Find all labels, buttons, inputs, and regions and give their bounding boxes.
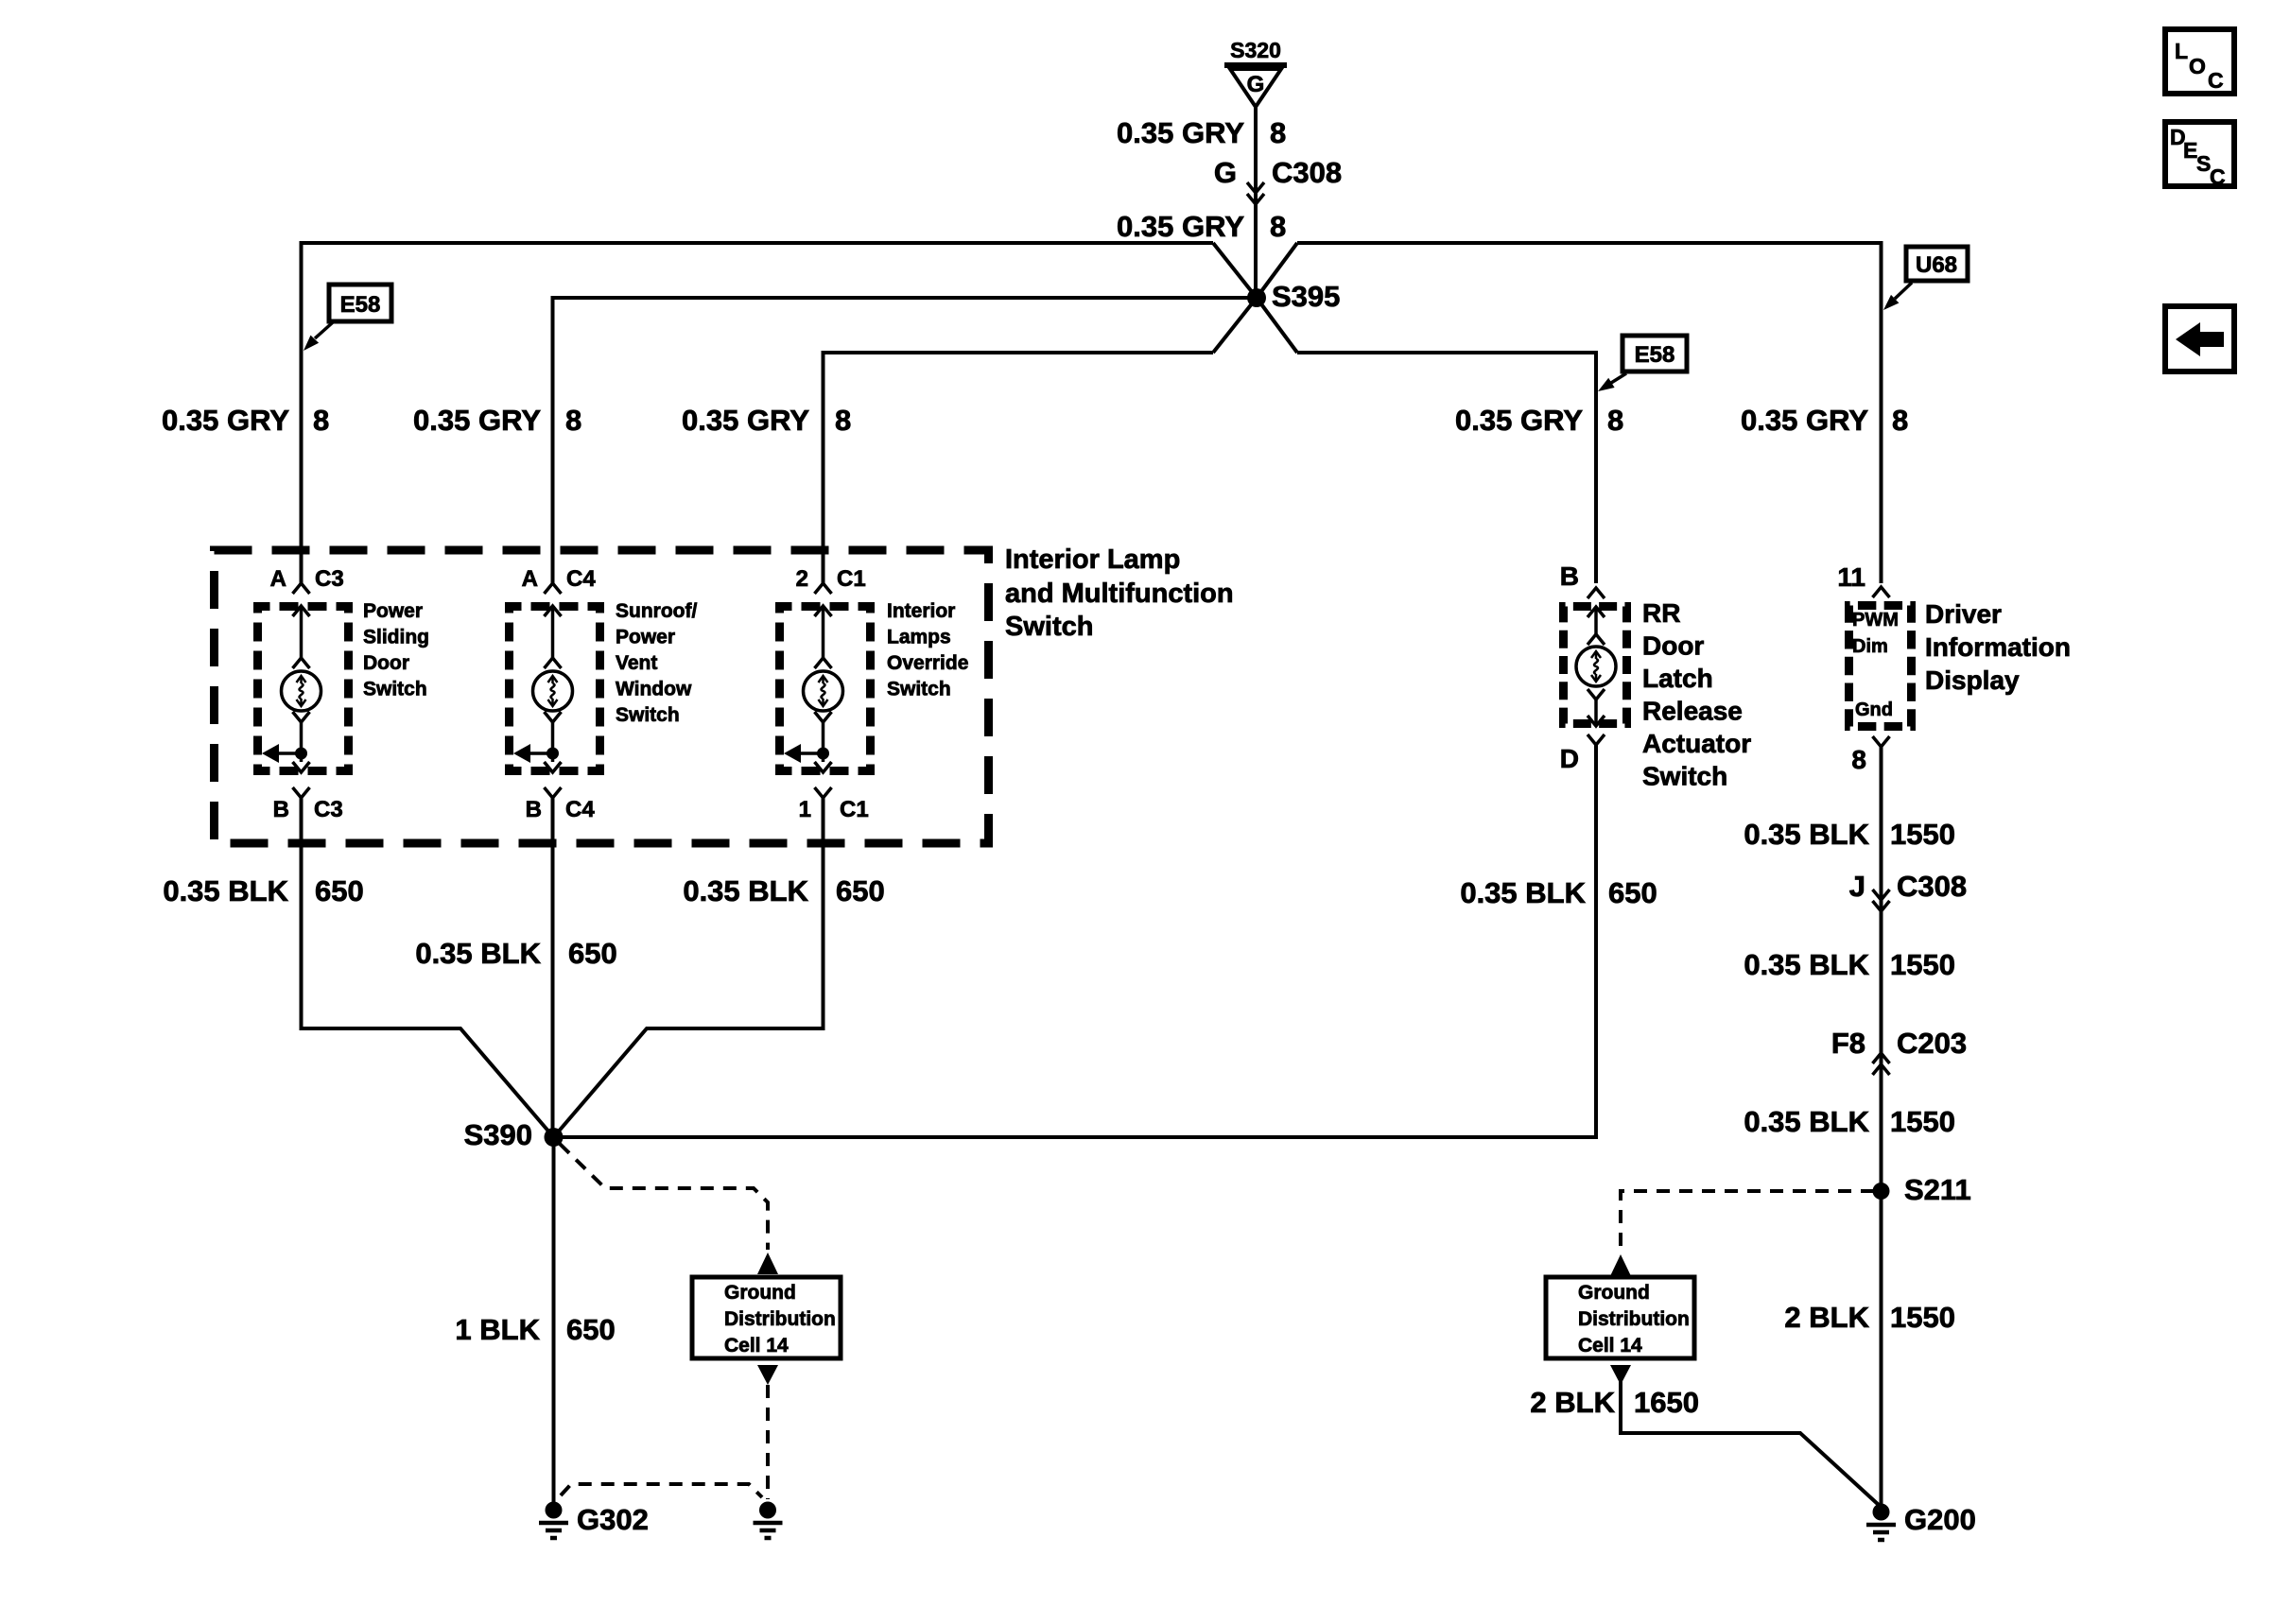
switch SW4: RR Door Latch Release Actuator Switch	[1560, 561, 1751, 791]
svg-text:0.35 BLK: 0.35 BLK	[1744, 1105, 1869, 1138]
svg-text:0.35 BLK: 0.35 BLK	[163, 874, 288, 907]
ground G200	[1866, 1504, 1896, 1541]
svg-text:Window: Window	[616, 679, 692, 700]
svg-text:PWM: PWM	[1852, 610, 1899, 631]
svg-text:650: 650	[568, 937, 617, 970]
pin 2 connector chevron (C1)	[815, 583, 832, 594]
junction S390	[545, 1128, 564, 1147]
value label 0.35 GRY 8 (wire to C3)	[162, 404, 329, 437]
switch SW3: Interior Lamps Override Switch	[780, 566, 969, 822]
svg-text:G302: G302	[577, 1503, 649, 1536]
value label 0.35 BLK 650 (from SW2)	[415, 937, 616, 970]
SW4 internal arrow down	[1588, 716, 1605, 726]
wire bus top-left to Power Sliding Door switch	[302, 243, 1214, 583]
svg-text:0.35 GRY: 0.35 GRY	[1117, 116, 1244, 149]
SW4 internal chevron above lamp	[1588, 634, 1605, 645]
svg-text:Dim: Dim	[1852, 636, 1888, 657]
svg-text:F8: F8	[1831, 1027, 1865, 1060]
dashed link ground distribution box to grounds	[766, 1385, 770, 1499]
connector F8 / C203 double chevron	[1831, 1027, 1967, 1075]
svg-text:1: 1	[799, 797, 811, 822]
switch SW2 dashed detail box	[510, 607, 600, 771]
svg-text:B: B	[1560, 561, 1579, 591]
svg-text:8: 8	[835, 404, 851, 437]
legend box LOC	[2165, 29, 2234, 94]
svg-text:C3: C3	[314, 797, 343, 822]
value label 0.35 GRY 8 (upper)	[1117, 116, 1286, 149]
wire diagonal S395 down-left	[1213, 298, 1257, 353]
connector C308 double chevron (pin G)	[1247, 182, 1264, 204]
value label 2 BLK 1550	[1784, 1301, 1955, 1334]
switch SW2: Sunroof/Power Vent Window Switch	[510, 566, 698, 822]
SW3 internal wire to wiper junction	[822, 722, 825, 762]
svg-text:Gnd: Gnd	[1855, 700, 1893, 720]
value label 0.35 GRY 8 (wire to C4)	[413, 404, 581, 437]
svg-text:Ground: Ground	[1578, 1282, 1650, 1304]
switch SW1: Power Sliding Door Switch	[258, 566, 430, 822]
svg-text:0.35 GRY: 0.35 GRY	[413, 404, 541, 437]
SW1 internal chevron below lamp	[293, 712, 310, 722]
wire SW1 pin B down to S390	[302, 798, 554, 1137]
pin A connector chevron (C3)	[293, 583, 310, 594]
svg-text:C203: C203	[1897, 1027, 1967, 1060]
svg-text:C3: C3	[315, 566, 344, 592]
SW4 internal arrow up	[1588, 607, 1605, 617]
svg-text:Information: Information	[1925, 632, 2071, 662]
connector callout box U68	[1883, 247, 1968, 310]
svg-text:C308: C308	[1897, 870, 1967, 903]
ground G302	[539, 1502, 568, 1539]
svg-text:C: C	[2208, 68, 2224, 93]
value label 2 BLK 1650	[1530, 1386, 1699, 1419]
svg-text:D: D	[1560, 744, 1579, 773]
component box: Interior Lamp and Multifunction Switch (dashed outline)	[215, 550, 989, 843]
svg-text:Interior Lamp: Interior Lamp	[1005, 544, 1180, 575]
svg-text:S395: S395	[1272, 280, 1340, 313]
svg-text:G200: G200	[1904, 1503, 1976, 1536]
svg-text:Actuator: Actuator	[1642, 729, 1751, 758]
pin 8 connector chevron	[1873, 736, 1890, 747]
SW3 wiper arrow left	[784, 744, 824, 763]
svg-text:8: 8	[565, 404, 581, 437]
svg-text:0.35 GRY: 0.35 GRY	[1117, 210, 1244, 243]
svg-text:Vent: Vent	[616, 652, 657, 674]
svg-text:C4: C4	[565, 797, 595, 822]
pin label G / connector C308	[1214, 156, 1342, 189]
value label 0.35 BLK 1550 (between C308 and C203)	[1744, 948, 1955, 981]
svg-text:Sliding: Sliding	[363, 627, 429, 648]
svg-text:Override: Override	[887, 652, 968, 674]
SW3 internal chevron above lamp	[815, 658, 832, 668]
svg-text:Release: Release	[1642, 697, 1743, 726]
ground distribution cell box (right)	[1546, 1277, 1694, 1358]
svg-text:8: 8	[313, 404, 329, 437]
pin 11 connector chevron	[1873, 587, 1890, 597]
svg-text:Driver: Driver	[1925, 599, 2002, 629]
svg-text:650: 650	[836, 874, 885, 907]
svg-text:1550: 1550	[1890, 818, 1955, 851]
wire diagonal S395 up-right	[1257, 243, 1297, 298]
dashed link S390 to ground distribution cell	[560, 1144, 768, 1250]
pin B connector chevron (C3)	[293, 787, 310, 798]
svg-text:0.35 GRY: 0.35 GRY	[1455, 404, 1583, 437]
svg-text:C4: C4	[566, 566, 596, 592]
svg-text:G: G	[1214, 156, 1237, 189]
svg-text:Ground: Ground	[724, 1282, 796, 1304]
connector callout box E58 (left)	[304, 285, 391, 351]
wire bus top-right to Driver Information Display	[1297, 243, 1882, 583]
DID dashed box	[1849, 606, 1912, 727]
svg-text:8: 8	[1892, 404, 1908, 437]
svg-text:650: 650	[1608, 876, 1657, 909]
svg-text:E58: E58	[340, 292, 381, 318]
svg-text:C308: C308	[1272, 156, 1342, 189]
label Interior Lamp and Multifunction Switch	[1005, 544, 1234, 642]
SW4 lamp symbol	[1576, 647, 1616, 686]
svg-text:0.35 BLK: 0.35 BLK	[415, 937, 541, 970]
SW2 internal arrow down	[545, 762, 562, 772]
svg-text:J: J	[1849, 870, 1865, 903]
ground distribution cell box (left)	[692, 1277, 841, 1358]
svg-text:Switch: Switch	[1005, 612, 1093, 642]
svg-text:C1: C1	[837, 566, 866, 592]
SW1 internal arrow up	[293, 606, 310, 616]
component U1: Driver Information Display	[1837, 562, 2071, 774]
dashed link to G302	[561, 1484, 762, 1497]
junction S211	[1873, 1183, 1890, 1200]
svg-text:11: 11	[1837, 562, 1865, 592]
svg-text:Door: Door	[363, 652, 409, 674]
dashed link S211 to ground distribution cell (right)	[1621, 1191, 1874, 1252]
wire SW2 pin B down to S390	[551, 798, 555, 1137]
svg-text:1650: 1650	[1634, 1386, 1699, 1419]
svg-text:Switch: Switch	[887, 679, 951, 700]
svg-text:S211: S211	[1904, 1173, 1971, 1206]
wire bus lower-right to RR Door Latch switch	[1297, 353, 1596, 583]
svg-text:Sunroof/: Sunroof/	[616, 600, 697, 622]
SW2 internal chevron above lamp	[545, 658, 562, 668]
svg-text:0.35 GRY: 0.35 GRY	[682, 404, 809, 437]
svg-text:650: 650	[566, 1313, 616, 1346]
svg-text:1 BLK: 1 BLK	[455, 1313, 540, 1346]
svg-text:1550: 1550	[1890, 948, 1955, 981]
wire S390 down to G302	[552, 1137, 556, 1503]
svg-text:2 BLK: 2 BLK	[1784, 1301, 1869, 1334]
legend box DESC	[2165, 122, 2234, 189]
svg-text:Latch: Latch	[1642, 664, 1713, 693]
svg-text:C: C	[2210, 164, 2226, 189]
wire S320 to S395	[1254, 107, 1258, 291]
svg-text:B: B	[273, 797, 289, 822]
svg-text:G: G	[1247, 72, 1265, 97]
SW2 wiper junction dot	[547, 748, 559, 760]
value label 1 BLK 650	[455, 1313, 615, 1346]
svg-text:Switch: Switch	[363, 679, 427, 700]
value label 0.35 BLK 1550 (above S211)	[1744, 1105, 1955, 1138]
pin A connector chevron (C4)	[545, 583, 562, 594]
SW1 wiper junction dot	[295, 748, 307, 760]
switch SW3 dashed detail box	[780, 607, 871, 771]
SW1 internal chevron above lamp	[293, 658, 310, 668]
svg-text:0.35 GRY: 0.35 GRY	[1741, 404, 1868, 437]
switch SW4 dashed detail box	[1564, 607, 1627, 724]
value label 0.35 GRY 8 (wire to DID)	[1741, 404, 1908, 437]
svg-text:8: 8	[1270, 210, 1286, 243]
arrowhead up into ground distribution box (right)	[1610, 1254, 1631, 1276]
svg-text:Distribution: Distribution	[1578, 1308, 1690, 1330]
value label 0.35 BLK 650 (from SW1)	[163, 874, 363, 907]
svg-text:8: 8	[1607, 404, 1623, 437]
arrowhead up into ground distribution box (left)	[757, 1253, 778, 1274]
svg-text:RR: RR	[1642, 598, 1680, 628]
pin D connector chevron	[1588, 734, 1605, 745]
arrowhead down out of ground distribution box (left)	[757, 1365, 778, 1385]
svg-text:8: 8	[1851, 745, 1866, 774]
svg-text:650: 650	[315, 874, 364, 907]
pin B connector chevron	[1588, 588, 1605, 598]
svg-text:1550: 1550	[1890, 1301, 1955, 1334]
connector callout box E58 (right)	[1598, 336, 1687, 391]
SW2 internal wire to wiper junction	[551, 722, 555, 762]
SW4 internal wire down	[1594, 700, 1598, 726]
svg-text:Power: Power	[616, 627, 675, 648]
pin B connector chevron (C4)	[545, 787, 562, 798]
svg-text:1550: 1550	[1890, 1105, 1955, 1138]
connector J / C308 double chevron	[1849, 870, 1967, 911]
pin 1 connector chevron (C1)	[815, 787, 832, 798]
svg-text:0.35 GRY: 0.35 GRY	[162, 404, 289, 437]
svg-text:A: A	[270, 566, 286, 592]
wire SW3 pin 1 down to S390	[554, 798, 824, 1137]
SW1 internal arrow down	[293, 762, 310, 772]
wire diagonal S395 down-right	[1257, 298, 1297, 353]
svg-text:0.35 BLK: 0.35 BLK	[1460, 876, 1586, 909]
svg-text:8: 8	[1270, 116, 1286, 149]
svg-text:S390: S390	[464, 1118, 532, 1151]
SW1 lamp symbol	[282, 671, 321, 711]
wire S390 right to RR door latch pin D	[554, 745, 1597, 1137]
svg-text:0.35 BLK: 0.35 BLK	[683, 874, 808, 907]
svg-text:Cell 14: Cell 14	[1578, 1335, 1642, 1356]
SW1 wiper arrow left	[262, 744, 302, 763]
wire DID pin 8 down to G200	[1880, 747, 1883, 1505]
svg-text:Display: Display	[1925, 665, 2020, 695]
value label 0.35 GRY 8 (wire to RR door latch)	[1455, 404, 1623, 437]
SW3 internal arrow down	[815, 762, 832, 772]
wire bus S395 left to Sunroof switch	[553, 298, 1249, 583]
switch SW1 dashed detail box	[258, 607, 349, 771]
svg-text:and Multifunction: and Multifunction	[1005, 579, 1234, 609]
svg-text:0.35 BLK: 0.35 BLK	[1744, 948, 1869, 981]
svg-text:S320: S320	[1230, 38, 1281, 62]
SW2 wiper arrow left	[513, 744, 553, 763]
SW4 internal chevron below lamp	[1588, 689, 1605, 700]
SW3 internal arrow up	[815, 606, 832, 616]
SW2 lamp symbol	[533, 671, 573, 711]
value label 0.35 GRY 8 (lower)	[1117, 210, 1286, 243]
svg-text:E58: E58	[1635, 342, 1675, 368]
svg-text:Switch: Switch	[1642, 762, 1727, 791]
svg-text:2: 2	[796, 566, 808, 592]
svg-text:L: L	[2175, 39, 2188, 63]
SW3 wiper junction dot	[817, 748, 829, 760]
svg-text:Door: Door	[1642, 631, 1704, 661]
SW2 internal arrow up	[545, 606, 562, 616]
value label 0.35 BLK 650 (from SW4)	[1460, 876, 1657, 909]
svg-text:C1: C1	[840, 797, 869, 822]
legend box back arrow	[2165, 306, 2234, 371]
SW3 internal chevron below lamp	[815, 712, 832, 722]
svg-text:Lamps: Lamps	[887, 627, 951, 648]
svg-text:Switch: Switch	[616, 704, 680, 726]
value label 0.35 GRY 8 (wire to C1)	[682, 404, 851, 437]
svg-text:Interior: Interior	[887, 600, 955, 622]
svg-text:B: B	[526, 797, 542, 822]
wire diagonal S395 up-left	[1213, 243, 1257, 298]
junction S395	[1247, 288, 1266, 307]
wire ground distribution box to G200	[1621, 1380, 1880, 1506]
arrowhead down out of ground distribution box (right)	[1610, 1365, 1631, 1385]
svg-text:A: A	[522, 566, 538, 592]
SW2 internal chevron below lamp	[545, 712, 562, 722]
svg-text:Distribution: Distribution	[724, 1308, 836, 1330]
ground symbol below ground distribution cell (left)	[754, 1502, 783, 1539]
svg-text:2 BLK: 2 BLK	[1530, 1386, 1615, 1419]
svg-text:Cell 14: Cell 14	[724, 1335, 789, 1356]
splice ground symbol S320 (G triangle)	[1224, 65, 1287, 107]
SW3 lamp symbol	[804, 671, 843, 711]
svg-text:Power: Power	[363, 600, 423, 622]
value label 0.35 BLK 650 (from SW3)	[683, 874, 884, 907]
svg-text:0.35 BLK: 0.35 BLK	[1744, 818, 1869, 851]
svg-text:O: O	[2189, 54, 2206, 78]
value label 0.35 BLK 1550 (above C308)	[1744, 818, 1955, 851]
wire bus lower-left to Interior Lamps Override switch	[824, 353, 1214, 583]
svg-text:U68: U68	[1916, 252, 1957, 278]
SW1 internal wire to wiper junction	[300, 722, 304, 762]
